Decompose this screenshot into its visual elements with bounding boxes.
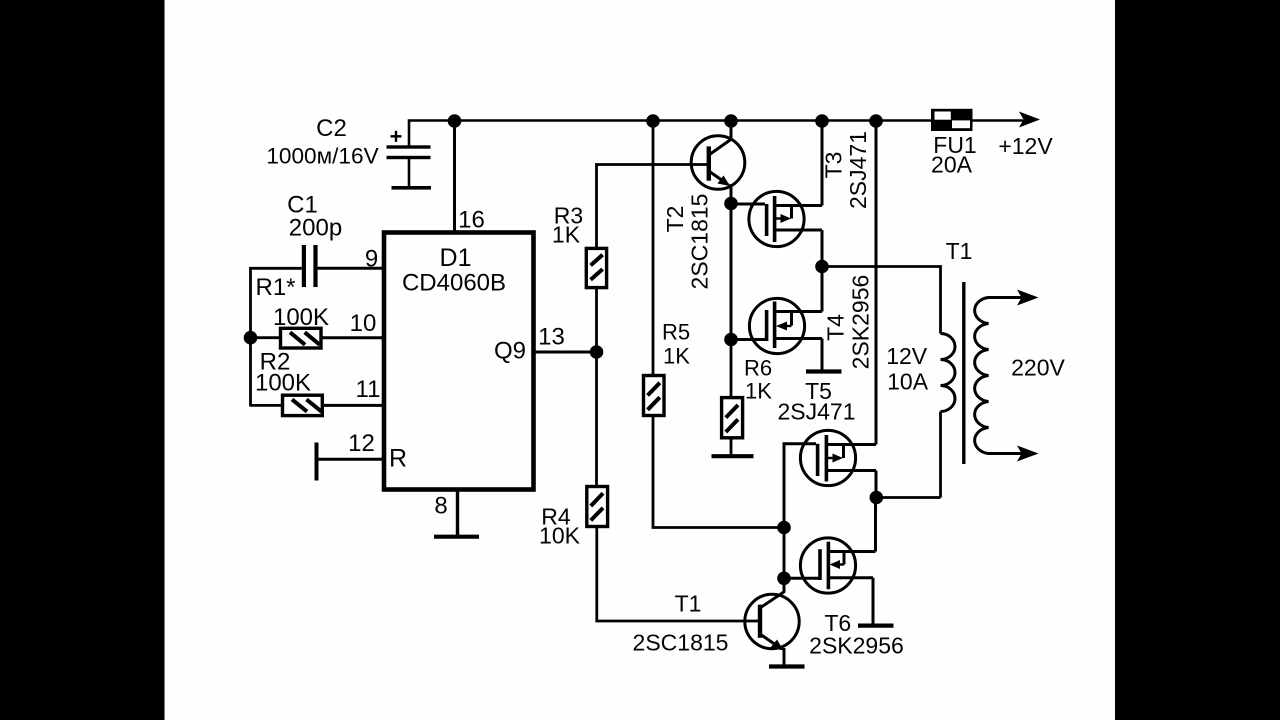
wire C1 left to left rail: [249, 267, 302, 270]
label 2SJ471 (T5): [777, 399, 855, 425]
resistor R4: [587, 487, 608, 527]
pin number 16: [458, 207, 485, 234]
pin number 8: [434, 493, 447, 520]
wire R5 to T5 gate node: [653, 416, 784, 528]
wire T5 gate from R5 node: [784, 444, 816, 528]
fuse FU1: [931, 109, 973, 131]
ground pin 8: [434, 535, 479, 539]
node T4 gate / R6 junction: [724, 333, 738, 347]
svg-text:1K: 1K: [745, 379, 772, 404]
svg-text:2SC1815: 2SC1815: [687, 194, 713, 290]
+12V rail arrow: [1019, 112, 1040, 128]
label T1 (transformer): [946, 238, 973, 264]
node T5/T6 midpoint junction: [870, 491, 884, 505]
svg-text:1K: 1K: [663, 343, 690, 368]
label T2 (rotated): [662, 206, 688, 233]
label 220V: [1011, 355, 1065, 381]
svg-text:12: 12: [348, 430, 375, 457]
pin number 10: [350, 310, 377, 337]
node T3/T4 midpoint junction: [815, 260, 829, 274]
svg-text:16: 16: [458, 207, 485, 234]
label 100K (R2): [255, 370, 311, 397]
svg-text:R: R: [389, 445, 407, 473]
wire T4 source to ground: [821, 339, 824, 370]
wire pin16 lead: [453, 121, 456, 233]
label 2SJ471 (rotated): [845, 131, 871, 209]
ground T6 source: [858, 623, 894, 627]
MOSFET T3 2SJ471: [749, 191, 822, 246]
svg-text:2SJ471: 2SJ471: [845, 131, 871, 209]
wire pin 12 lead: [317, 458, 385, 461]
node rail to T5 drain junction: [869, 114, 883, 128]
transformer primary winding: [941, 334, 956, 498]
wire R3 branch vertical: [597, 165, 708, 353]
resistor R5: [644, 376, 665, 416]
wire pin 13 Q9 output: [534, 351, 597, 354]
svg-text:T1: T1: [946, 238, 973, 264]
label 12V: [886, 343, 928, 369]
wire R4 branch vertical: [595, 352, 598, 487]
label 2SK2956 (rotated): [848, 275, 874, 370]
wire node to transformer primary top: [822, 267, 941, 334]
svg-text:200p: 200p: [289, 215, 342, 242]
ground T4 source: [806, 369, 842, 373]
wire secondary top lead: [988, 296, 1023, 299]
svg-text:12V: 12V: [886, 343, 928, 369]
wire R6 branch: [730, 340, 733, 398]
pin number 9: [365, 246, 378, 273]
svg-text:T1: T1: [675, 591, 702, 617]
wire T5 drain lead from rail: [875, 121, 878, 445]
wire T6 gate lead: [784, 577, 819, 580]
svg-text:Q9: Q9: [494, 338, 526, 365]
svg-text:1K: 1K: [552, 221, 581, 247]
node rail to T3 drain junction: [815, 114, 829, 128]
svg-text:D1: D1: [440, 244, 472, 272]
MOSFET T4 2SK2956: [749, 298, 822, 353]
transformer secondary winding: [975, 298, 989, 454]
label R5: [662, 319, 690, 344]
node rail to T2 collector junction: [724, 114, 738, 128]
label +12V: [998, 133, 1053, 159]
resistor R6: [722, 398, 743, 455]
transistor T1 2SC1815 NPN: [745, 578, 799, 664]
node T6 gate / T1 collector junction: [777, 572, 791, 586]
node Q9 output junction: [590, 345, 604, 359]
node T2 emitter / T3 gate junction: [724, 197, 738, 211]
svg-text:2SC1815: 2SC1815: [633, 630, 729, 656]
wire T5 source down to node: [875, 471, 878, 498]
svg-text:100K: 100K: [255, 370, 311, 397]
wire node to transformer primary bottom: [876, 496, 940, 499]
label FU1: [933, 132, 976, 158]
svg-text:+12V: +12V: [998, 133, 1053, 159]
label T5: [805, 378, 832, 404]
label T1 (transistor): [675, 591, 702, 617]
label 10K (R4): [539, 522, 581, 548]
svg-text:R1*: R1*: [255, 274, 295, 301]
MOSFET T6 2SK2956: [800, 538, 875, 593]
wire T3 source to node: [821, 230, 824, 267]
wire C1 right to pin 9: [318, 267, 384, 270]
wire T6 source to ground: [872, 578, 875, 624]
label 1K (R3): [552, 221, 581, 247]
wire T3 gate lead: [731, 203, 765, 206]
wire T4 gate lead: [731, 338, 765, 341]
wire T2 emitter chain down to T4 gate: [730, 204, 733, 340]
wire +12V top rail: [409, 121, 1023, 148]
label T6: [824, 610, 851, 636]
resistor R1: [251, 328, 385, 348]
MOSFET T5 2SJ471: [800, 430, 876, 485]
label 2SC1815 (T1): [633, 630, 729, 656]
transistor T2 2SC1815 NPN: [691, 121, 745, 203]
label 2SC1815 (rotated): [687, 194, 713, 290]
svg-text:10K: 10K: [539, 522, 581, 548]
svg-text:CD4060B: CD4060B: [402, 270, 506, 297]
label R2: [260, 349, 291, 376]
resistor R3: [586, 248, 606, 287]
svg-text:R6: R6: [744, 355, 772, 380]
pin number 13: [538, 323, 565, 350]
resistor R2: [251, 395, 385, 415]
svg-text:1000м/16V: 1000м/16V: [266, 144, 378, 169]
pin 12 open terminal bar: [315, 443, 319, 481]
svg-text:2SK2956: 2SK2956: [809, 633, 904, 659]
svg-text:9: 9: [365, 246, 378, 273]
svg-text:8: 8: [434, 493, 447, 520]
svg-text:T4: T4: [823, 314, 849, 341]
IC U1 D1 CD4060B box: [384, 233, 534, 490]
node: rail to pin16 junction: [448, 114, 462, 128]
label R4: [541, 503, 571, 529]
pin number 11: [356, 376, 381, 403]
svg-text:2SJ471: 2SJ471: [777, 399, 855, 425]
svg-text:2SK2956: 2SK2956: [848, 275, 874, 370]
wire T6 drain up to node: [874, 498, 877, 552]
wire T3 drain lead: [821, 121, 824, 206]
wire R5 branch vertical: [652, 121, 655, 376]
label R1*: [255, 274, 295, 301]
node R1 R2 junction: [244, 331, 258, 345]
label T3 (rotated): [821, 152, 847, 179]
capacitor C1: [287, 192, 342, 288]
svg-text:R5: R5: [662, 319, 690, 344]
capacitor C2: [266, 115, 431, 190]
label 1K (R5): [663, 343, 690, 368]
ground T1 emitter: [769, 664, 805, 668]
svg-text:20A: 20A: [931, 152, 973, 178]
transformer core: [962, 282, 965, 464]
wire secondary bottom lead: [988, 452, 1023, 455]
node rail to R5 junction: [646, 114, 660, 128]
svg-text:10: 10: [350, 310, 377, 337]
wire T4 drain to node: [821, 267, 824, 312]
svg-text:C2: C2: [316, 115, 347, 142]
arrow secondary bottom: [1017, 446, 1039, 462]
label 2SK2956 (T6): [809, 633, 904, 659]
label R6: [744, 355, 772, 380]
label 100K (R1): [273, 304, 329, 331]
label T4 (rotated): [823, 314, 849, 341]
svg-text:220V: 220V: [1011, 355, 1065, 381]
wire pin 8 lead: [456, 490, 459, 537]
node R5 / T5 gate junction: [777, 521, 791, 535]
svg-text:10A: 10A: [887, 368, 929, 394]
svg-text:T3: T3: [821, 152, 847, 179]
label 1K (R6): [745, 379, 772, 404]
svg-text:11: 11: [356, 376, 381, 403]
label R3: [554, 202, 583, 228]
wire left vertical rail R1/R2: [249, 267, 252, 407]
svg-text:T2: T2: [662, 206, 688, 233]
wire gate chain down to T6 gate node: [783, 528, 786, 579]
wire R4 to T1 base: [597, 527, 758, 622]
label 20A: [931, 152, 973, 178]
arrow secondary top: [1017, 290, 1039, 306]
ground R6: [712, 454, 754, 458]
label 10A: [887, 368, 929, 394]
svg-text:13: 13: [538, 323, 565, 350]
pin number 12: [348, 430, 375, 457]
